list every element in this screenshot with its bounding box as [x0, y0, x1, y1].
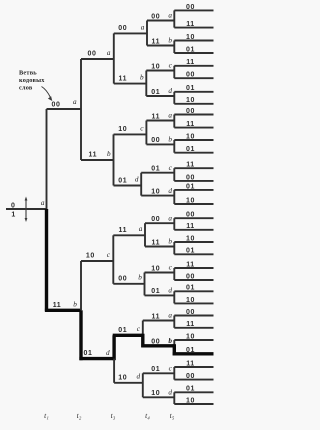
- svg-text:d: d: [106, 349, 110, 357]
- svg-text:a: a: [139, 225, 143, 233]
- svg-text:11: 11: [186, 21, 195, 28]
- svg-text:10: 10: [151, 188, 160, 195]
- svg-text:00: 00: [151, 339, 160, 346]
- svg-text:b: b: [168, 337, 172, 345]
- svg-text:01: 01: [186, 146, 195, 153]
- svg-text:11: 11: [151, 113, 160, 120]
- svg-text:10: 10: [186, 235, 195, 242]
- svg-text:d: d: [168, 287, 172, 295]
- svg-text:00: 00: [186, 309, 195, 316]
- svg-text:10: 10: [118, 126, 127, 133]
- svg-text:b: b: [73, 301, 77, 309]
- svg-text:11: 11: [186, 261, 195, 268]
- svg-text:11: 11: [186, 360, 195, 367]
- svg-text:00: 00: [118, 25, 127, 32]
- svg-text:t₃: t₃: [111, 411, 116, 420]
- svg-text:b: b: [168, 238, 172, 246]
- svg-text:11: 11: [186, 321, 195, 328]
- svg-text:11: 11: [186, 162, 195, 169]
- svg-text:t₄: t₄: [145, 411, 150, 420]
- svg-text:00: 00: [186, 174, 195, 181]
- svg-text:d: d: [168, 187, 172, 195]
- svg-text:00: 00: [186, 4, 195, 11]
- svg-text:10: 10: [186, 133, 195, 140]
- svg-text:a: a: [168, 112, 172, 120]
- svg-text:d: d: [135, 175, 139, 183]
- svg-text:00: 00: [151, 216, 160, 223]
- svg-text:11: 11: [118, 227, 127, 234]
- svg-text:01: 01: [151, 366, 160, 373]
- svg-text:b: b: [107, 150, 111, 158]
- svg-text:10: 10: [86, 252, 95, 259]
- svg-text:10: 10: [186, 397, 195, 404]
- svg-text:01: 01: [84, 350, 93, 357]
- svg-text:10: 10: [186, 34, 195, 41]
- svg-text:a: a: [107, 49, 111, 57]
- svg-text:00: 00: [186, 72, 195, 79]
- svg-text:00: 00: [186, 273, 195, 280]
- svg-text:00: 00: [186, 212, 195, 219]
- svg-text:00: 00: [186, 108, 195, 115]
- svg-text:11: 11: [151, 239, 160, 246]
- svg-text:d: d: [137, 373, 141, 381]
- svg-text:11: 11: [186, 59, 195, 66]
- svg-text:b: b: [168, 136, 172, 144]
- svg-text:0: 0: [11, 202, 16, 209]
- svg-text:10: 10: [186, 97, 195, 104]
- svg-text:b: b: [140, 74, 144, 82]
- svg-text:a: a: [41, 199, 45, 207]
- svg-text:11: 11: [186, 223, 195, 230]
- svg-text:00: 00: [52, 101, 61, 108]
- svg-text:Ветвь: Ветвь: [19, 70, 37, 77]
- svg-text:01: 01: [151, 89, 160, 96]
- svg-text:d: d: [168, 389, 172, 397]
- svg-text:01: 01: [151, 288, 160, 295]
- svg-text:00: 00: [88, 50, 97, 57]
- svg-text:11: 11: [53, 302, 62, 309]
- svg-text:a: a: [73, 98, 77, 106]
- svg-text:10: 10: [118, 375, 127, 382]
- svg-text:00: 00: [118, 276, 127, 283]
- svg-text:1: 1: [11, 211, 16, 218]
- svg-text:слов: слов: [19, 85, 33, 92]
- svg-text:t₂: t₂: [77, 411, 82, 420]
- svg-text:01: 01: [186, 183, 195, 190]
- svg-text:t₅: t₅: [170, 411, 175, 420]
- svg-text:a: a: [168, 12, 172, 20]
- svg-text:10: 10: [186, 297, 195, 304]
- svg-text:01: 01: [118, 177, 127, 184]
- svg-text:t₁: t₁: [44, 411, 49, 420]
- svg-text:00: 00: [186, 373, 195, 380]
- svg-text:01: 01: [151, 166, 160, 173]
- svg-text:b: b: [138, 274, 142, 282]
- svg-text:00: 00: [151, 13, 160, 20]
- svg-text:01: 01: [186, 85, 195, 92]
- svg-text:10: 10: [151, 265, 160, 272]
- svg-text:a: a: [141, 23, 145, 31]
- svg-text:11: 11: [118, 75, 127, 82]
- svg-text:11: 11: [88, 151, 97, 158]
- svg-text:11: 11: [186, 121, 195, 128]
- svg-text:b: b: [168, 37, 172, 45]
- svg-text:11: 11: [151, 38, 160, 45]
- svg-text:01: 01: [118, 327, 127, 334]
- svg-text:01: 01: [186, 386, 195, 393]
- svg-text:a: a: [168, 214, 172, 222]
- svg-text:10: 10: [186, 333, 195, 340]
- svg-text:d: d: [168, 87, 172, 95]
- svg-text:10: 10: [151, 63, 160, 70]
- svg-text:a: a: [168, 312, 172, 320]
- svg-text:10: 10: [151, 390, 160, 397]
- svg-text:01: 01: [186, 285, 195, 292]
- svg-text:01: 01: [186, 46, 195, 53]
- svg-text:01: 01: [186, 347, 195, 354]
- svg-text:10: 10: [186, 197, 195, 204]
- svg-text:00: 00: [151, 137, 160, 144]
- svg-text:11: 11: [151, 313, 160, 320]
- svg-text:01: 01: [186, 248, 195, 255]
- svg-text:кодовых: кодовых: [19, 77, 45, 84]
